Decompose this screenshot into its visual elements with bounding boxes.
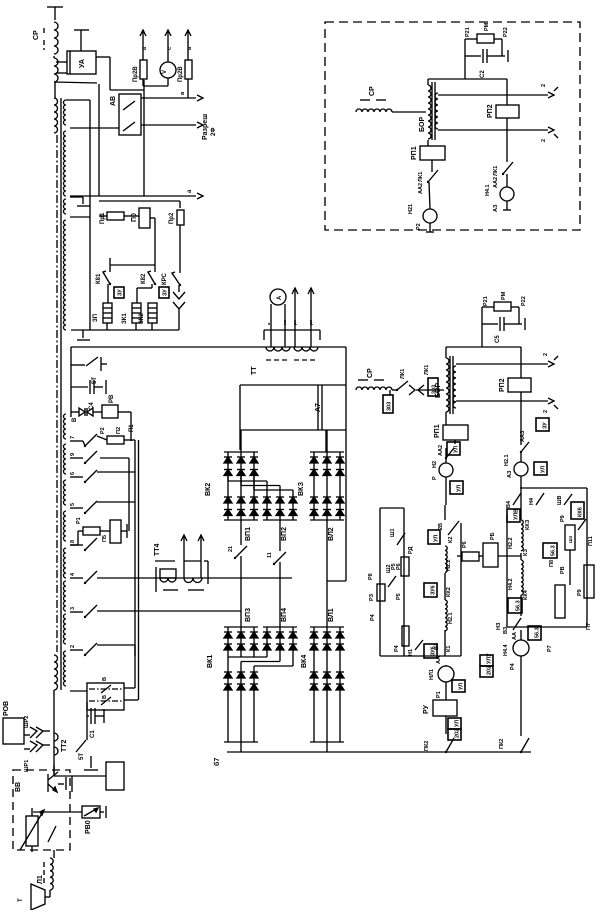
svg-text:Р21: Р21 [465,27,471,37]
svg-text:ЛК1: ЛК1 [424,365,430,375]
svg-text:УЛ: УЛ [541,466,547,473]
svg-text:2: 2 [70,645,76,648]
svg-text:Р1: Р1 [76,517,82,524]
svg-text:Н1: Н1 [408,649,414,656]
svg-text:РВ: РВ [109,394,115,403]
svg-text:Р2: Р2 [416,223,422,230]
svg-text:ШР2: ШР2 [24,716,30,728]
svg-text:ТТ: ТТ [251,366,258,375]
svg-text:АЗ: АЗ [507,470,513,478]
svg-text:НЛ1: НЛ1 [429,669,435,680]
svg-text:Р5: Р5 [396,593,402,600]
svg-text:К1: К1 [446,646,452,652]
svg-text:Н2.1: Н2.1 [504,454,510,466]
svg-text:Н4: Н4 [529,497,535,505]
svg-text:УЛ: УЛ [455,720,461,727]
svg-text:АА2: АА2 [418,183,424,194]
svg-text:2: 2 [541,84,547,87]
svg-text:П11: П11 [588,536,594,546]
svg-text:Р4: Р4 [370,613,376,621]
svg-text:ВП3: ВП3 [245,608,252,622]
svg-text:ЛК1: ЛК1 [400,369,406,379]
svg-text:202: 202 [455,729,461,738]
svg-text:УЛ: УЛ [457,485,463,492]
svg-text:Р: Р [432,476,438,480]
svg-text:7: 7 [70,436,76,439]
svg-text:2Ф: 2Ф [211,128,217,136]
svg-text:АА: АА [436,656,442,664]
svg-text:2В: 2В [438,523,444,530]
svg-text:Ш4: Ш4 [568,535,573,543]
svg-text:ЛК1: ЛК1 [418,172,424,182]
svg-text:ВК2: ВК2 [205,483,212,496]
svg-text:Пр2: Пр2 [169,212,175,224]
svg-text:П7: П7 [586,623,592,630]
svg-text:56.3: 56.3 [551,545,557,556]
svg-text:2: 2 [543,353,549,356]
svg-text:Н2.1: Н2.1 [448,612,454,624]
svg-text:С5: С5 [495,335,501,343]
svg-text:8: 8 [70,540,76,543]
svg-text:ВП2: ВП2 [281,527,288,541]
svg-text:БОР: БОР [419,117,426,132]
svg-text:СР: СР [369,86,376,96]
svg-text:ВКЗ: ВКЗ [298,481,305,496]
svg-text:Пр1: Пр1 [100,212,106,224]
svg-text:РП2: РП2 [499,378,506,392]
svg-text:ЛК1: ЛК1 [493,166,499,176]
svg-text:УЛ: УЛ [434,535,440,542]
svg-text:РВ: РВ [560,566,566,574]
svg-text:АВ: АВ [110,96,117,106]
svg-text:Л1: Л1 [37,875,44,884]
svg-text:РП1: РП1 [434,424,441,438]
svg-text:ВП1: ВП1 [245,527,252,541]
svg-text:ВЛ1: ВЛ1 [328,608,335,622]
svg-text:5: 5 [70,503,76,506]
svg-text:К81: К81 [96,273,102,284]
svg-text:АА2: АА2 [493,177,499,188]
svg-text:Р9: Р9 [560,515,566,522]
svg-text:ЗК2: ЗК2 [139,313,145,324]
svg-text:6: 6 [70,472,76,475]
svg-text:ТТ4: ТТ4 [154,543,161,556]
svg-text:Н4.1: Н4.1 [485,184,491,196]
svg-text:АЗ: АЗ [493,204,499,212]
svg-text:П0: П0 [131,213,138,222]
svg-text:ив: ив [282,320,287,325]
svg-text:Ш1: Ш1 [390,528,396,537]
svg-text:П8: П8 [549,560,555,567]
svg-text:ЗП: ЗП [93,314,99,322]
svg-text:В1: В1 [434,643,440,650]
svg-text:АА: АА [512,632,518,640]
svg-text:ВВ: ВВ [15,782,22,792]
svg-text:ВЛ2: ВЛ2 [328,527,335,541]
svg-text:ра: ра [292,320,297,325]
svg-text:ЗК1: ЗК1 [122,313,128,324]
svg-text:А: А [277,295,283,300]
svg-text:Н2.2: Н2.2 [508,537,514,549]
svg-text:Р9: Р9 [577,589,583,596]
svg-text:РМ: РМ [484,22,490,31]
svg-text:Р22: Р22 [503,27,509,37]
svg-text:С2: С2 [480,70,486,78]
svg-text:Р7: Р7 [547,645,553,652]
svg-text:Н2: Н2 [432,461,438,468]
svg-text:Р1: Р1 [436,691,442,698]
svg-text:ААЗ: ААЗ [520,430,526,442]
svg-text:КК4: КК4 [523,589,529,600]
svg-text:К82: К82 [141,273,147,284]
svg-text:АА2: АА2 [438,445,444,456]
svg-text:УЛУ: УЛУ [487,653,493,664]
svg-text:Н2.2: Н2.2 [446,559,452,571]
svg-text:РОВ: РОВ [3,701,10,716]
svg-text:КРС: КРС [162,272,168,285]
svg-text:Н4.4: Н4.4 [503,643,509,656]
svg-text:ПК2: ПК2 [424,741,430,751]
svg-text:ШВ: ШВ [557,495,563,505]
svg-text:202: 202 [487,666,493,675]
svg-text:ЗУ: ЗУ [163,289,169,296]
svg-text:РЗ: РЗ [369,593,375,601]
svg-text:5Т: 5Т [79,753,85,760]
svg-text:К2: К2 [448,537,454,543]
svg-text:303: 303 [387,402,393,411]
svg-text:П5: П5 [102,535,108,542]
svg-text:V: V [162,70,168,74]
svg-text:Р6: Р6 [462,541,468,548]
svg-text:рв: рв [308,320,313,325]
svg-text:П1: П1 [129,424,135,432]
svg-text:В: В [72,417,78,422]
svg-text:Р8: Р8 [368,573,374,580]
svg-text:В: В [102,677,108,681]
svg-text:с: с [167,47,173,50]
svg-text:2: 2 [541,139,547,142]
svg-text:ЗУ: ЗУ [543,422,549,429]
svg-text:РУ: РУ [423,704,430,714]
svg-text:5Т: 5Т [92,377,98,384]
svg-text:СР: СР [367,368,374,378]
svg-text:СР: СР [33,30,40,40]
svg-text:21: 21 [228,546,234,552]
svg-text:РД: РД [408,547,414,554]
svg-text:УА: УА [79,59,86,68]
svg-text:Т: Т [18,898,24,902]
svg-text:ВК4: ВК4 [301,655,308,668]
svg-text:Пр2В: Пр2В [178,66,184,82]
svg-text:б7: б7 [213,758,221,766]
svg-text:ККЗ: ККЗ [525,519,531,530]
svg-text:В4: В4 [506,500,512,508]
svg-text:3: 3 [70,607,76,610]
svg-text:КЗ: КЗ [523,548,529,556]
svg-text:РБ: РБ [490,532,496,540]
svg-text:Р4: Р4 [394,644,400,652]
svg-text:Р4: Р4 [510,662,516,670]
svg-text:УЛ: УЛ [454,446,460,453]
svg-text:Ш2: Ш2 [386,564,392,573]
svg-text:11: 11 [267,552,273,558]
svg-text:РВ0: РВ0 [85,820,92,834]
svg-text:НЗ: НЗ [496,622,502,630]
svg-text:ВК1: ВК1 [207,655,214,668]
svg-text:Пр2В: Пр2В [133,66,139,82]
svg-text:Н4.2: Н4.2 [508,578,514,590]
svg-text:Разреш: Разреш [202,114,209,140]
svg-text:Р2: Р2 [100,427,106,434]
svg-text:РП2: РП2 [487,104,494,118]
svg-text:56.3: 56.3 [516,600,522,611]
svg-text:РП1: РП1 [411,146,418,160]
svg-text:56.3: 56.3 [535,627,541,638]
svg-text:ЗУ6: ЗУ6 [431,585,437,595]
svg-text:Р22: Р22 [521,296,527,306]
svg-text:КК6: КК6 [578,507,584,517]
svg-text:УЛ: УЛ [459,683,465,690]
svg-text:А7: А7 [315,403,322,412]
svg-text:РМ: РМ [501,291,507,300]
svg-text:ЗУ: ЗУ [118,289,124,296]
svg-text:9: 9 [70,453,76,456]
svg-text:УЛВ: УЛВ [514,509,520,520]
svg-text:ТТ2: ТТ2 [61,739,68,752]
svg-text:Р21: Р21 [483,296,489,306]
svg-text:ВЗ: ВЗ [503,626,509,634]
svg-text:БОР: БОР [435,383,442,398]
svg-text:С1: С1 [90,730,96,738]
svg-text:Н21: Н21 [408,204,414,214]
svg-text:Р6: Р6 [396,563,402,570]
svg-text:П2: П2 [116,427,122,434]
svg-text:В: В [102,695,108,699]
svg-text:2: 2 [543,410,549,413]
svg-text:КК2: КК2 [446,587,452,597]
svg-text:ВП4: ВП4 [281,608,288,622]
svg-text:ПК2: ПК2 [499,739,505,749]
